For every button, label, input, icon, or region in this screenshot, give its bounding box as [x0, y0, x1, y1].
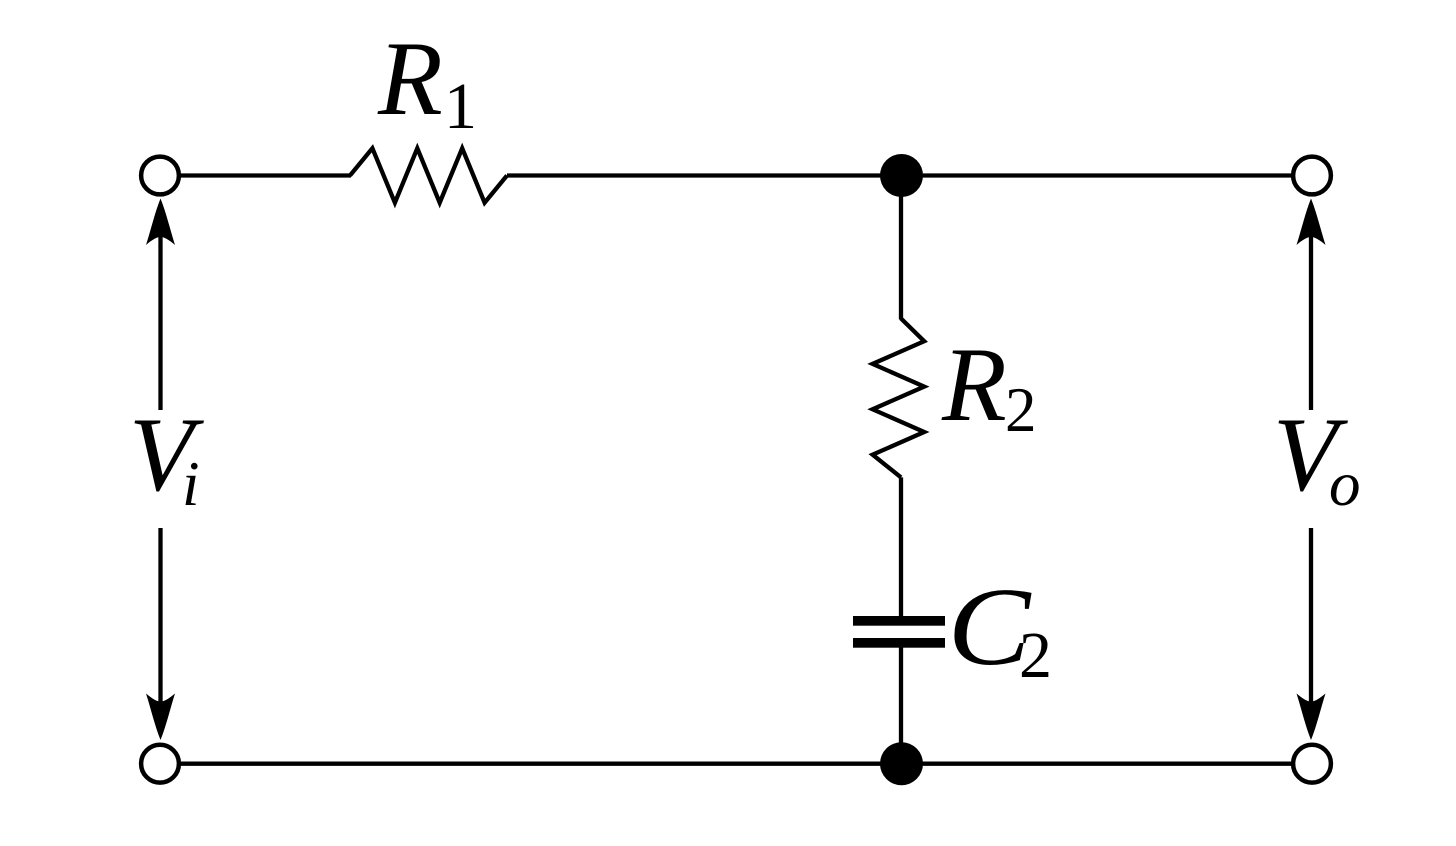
svg-text:R: R: [377, 20, 443, 137]
resistor R2: [873, 319, 925, 478]
wire: bottom horizontal segment: [180, 762, 1292, 766]
terminal: input top (open circle): [141, 157, 179, 195]
Vi arrow: upper head (points up at input top terminal): [146, 199, 175, 246]
resistor R1: [350, 148, 507, 202]
label Vo: [1273, 396, 1361, 519]
Vo arrow: upper shaft: [1309, 236, 1313, 410]
Vo arrow: lower head (points down at output bottom terminal): [1297, 694, 1326, 741]
svg-text:2: 2: [1019, 619, 1052, 692]
Vo arrow: lower shaft: [1309, 528, 1313, 703]
Vi arrow: lower shaft: [158, 528, 162, 703]
svg-text:i: i: [182, 449, 200, 519]
wire: vertical segment from node A down to R2: [899, 193, 903, 320]
terminal: input bottom (open circle): [141, 745, 179, 783]
capacitor C2 (bottom plate): [853, 638, 945, 648]
Vo arrow: upper head (points up at output top terminal): [1297, 199, 1326, 246]
node A (top junction dot): [880, 154, 923, 197]
label R1: [377, 20, 477, 143]
wire: vertical segment from R2 to capacitor C2: [899, 477, 903, 620]
svg-text:2: 2: [1005, 375, 1037, 445]
Vi arrow: upper shaft: [158, 236, 162, 410]
svg-text:o: o: [1329, 449, 1361, 519]
label C2: [948, 566, 1053, 692]
wire: top horizontal segment from R1 to output terminal: [507, 173, 1292, 177]
svg-text:R: R: [941, 326, 1007, 443]
svg-text:1: 1: [444, 70, 477, 143]
capacitor C2 (top plate): [853, 616, 945, 626]
node B (bottom junction dot): [880, 742, 923, 785]
wire: top-left horizontal segment from input terminal to R1: [180, 173, 351, 177]
label R2: [941, 326, 1037, 445]
terminal: output top (open circle): [1293, 157, 1331, 195]
terminal: output bottom (open circle): [1293, 745, 1331, 783]
Vi arrow: lower head (points down at input bottom terminal): [146, 694, 175, 741]
label Vi: [129, 396, 204, 519]
wire: vertical segment from C2 to node B: [899, 644, 903, 764]
